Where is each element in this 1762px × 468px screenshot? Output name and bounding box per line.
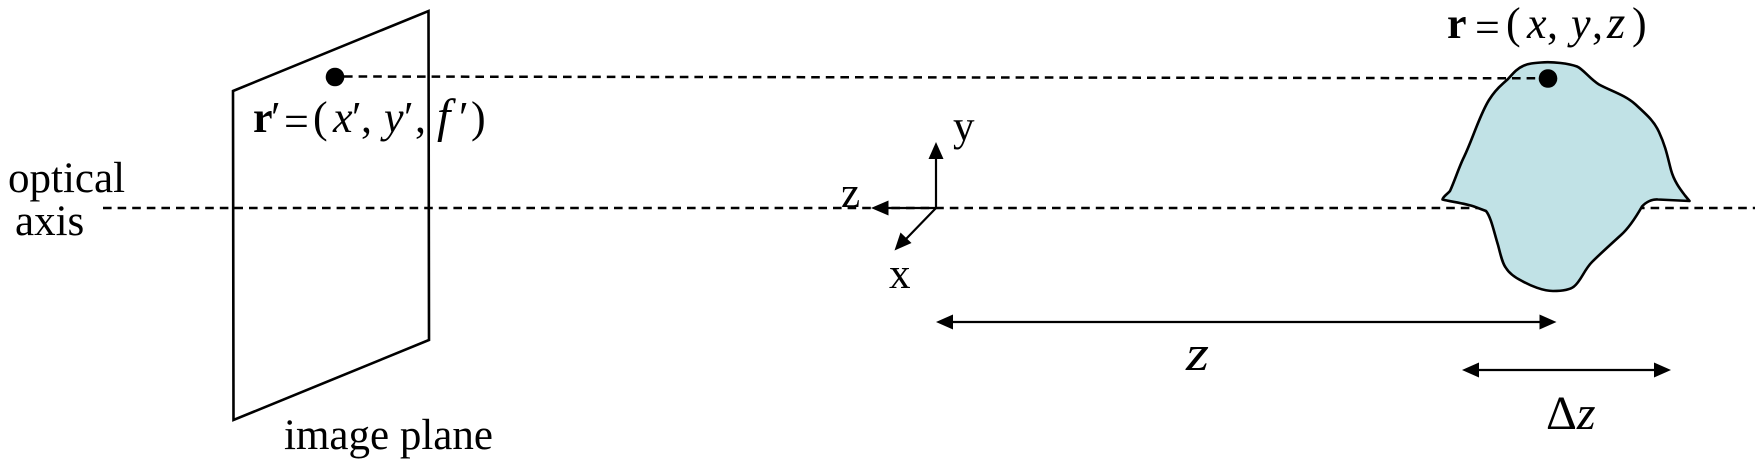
svg-text:optical: optical <box>8 155 125 202</box>
image plane parallelogram <box>233 11 429 420</box>
svg-text:r=(x,y,z): r=(x,y,z) <box>1447 0 1647 52</box>
svg-text:x: x <box>889 251 911 298</box>
object point dot <box>1539 69 1558 88</box>
image point dot <box>326 68 345 87</box>
optical axis dashed line <box>103 207 1755 210</box>
svg-text:axis: axis <box>15 198 84 245</box>
x-axis (down-left) <box>906 208 936 239</box>
svg-text:Δz: Δz <box>1546 387 1596 440</box>
z-axis (leftward) <box>886 207 936 209</box>
svg-text:z: z <box>841 170 860 217</box>
coordinate origin: y-axis <box>935 157 937 208</box>
svg-text:image plane: image plane <box>284 412 493 459</box>
delta-z double arrow <box>1476 369 1657 371</box>
svg-text:z: z <box>1185 325 1209 381</box>
svg-text:r′=(x′,y′,f′): r′=(x′,y′,f′) <box>253 90 486 146</box>
object blob <box>1443 62 1690 291</box>
svg-text:y: y <box>953 103 975 150</box>
top dashed ray from image point to object point <box>344 77 1546 79</box>
z dimension double arrow <box>950 321 1542 323</box>
